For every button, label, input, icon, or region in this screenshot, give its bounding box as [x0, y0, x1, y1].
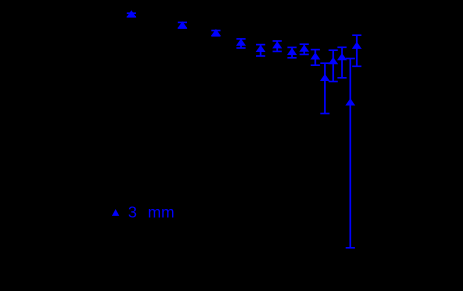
- data point 10 triangle marker: [321, 75, 329, 81]
- data point 14 error bar: [352, 35, 361, 66]
- data point 9 triangle marker: [311, 53, 319, 59]
- data point 5 error bar: [256, 45, 265, 56]
- data point 8 error bar: [300, 44, 309, 54]
- data point 7 triangle marker: [288, 49, 296, 55]
- data point 12 error bar: [337, 47, 346, 78]
- data point 11 triangle marker: [329, 58, 337, 64]
- data point 9 error bar: [311, 50, 320, 66]
- data point 14 triangle marker: [353, 43, 361, 49]
- data point 7 error bar: [287, 47, 296, 57]
- data point 12 triangle marker: [338, 54, 346, 60]
- data point 1 triangle marker: [127, 11, 135, 17]
- data point 8 triangle marker: [300, 45, 308, 51]
- data point 6 triangle marker: [273, 42, 281, 48]
- data point 3 error bar: [211, 31, 220, 36]
- data point 4 error bar: [236, 39, 245, 48]
- data point 2 error bar: [178, 22, 187, 28]
- data point 6 error bar: [273, 41, 282, 51]
- legend marker triangle: [112, 209, 119, 216]
- data point 3 triangle marker: [212, 30, 220, 36]
- data point 10 error bar: [320, 63, 329, 113]
- data point 13 triangle marker: [346, 99, 354, 105]
- data point 4 triangle marker: [237, 39, 245, 45]
- data point 11 error bar: [329, 50, 338, 81]
- data point 13 error bar: [346, 59, 355, 248]
- data point 2 triangle marker: [178, 22, 186, 28]
- svg-text:mm: mm: [148, 205, 175, 222]
- data point 1 error bar: [127, 13, 136, 17]
- data point 5 triangle marker: [257, 46, 265, 52]
- svg-text:3: 3: [128, 205, 137, 222]
